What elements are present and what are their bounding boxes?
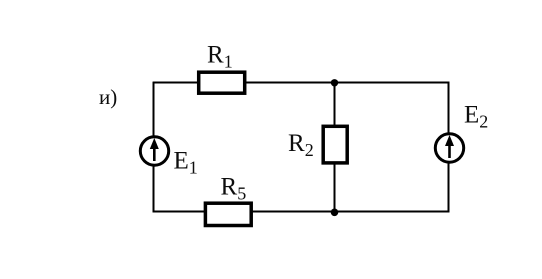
wire bottom middle segment [250, 211, 335, 213]
wire bottom-left segment [153, 211, 206, 213]
wire right vertical upper [448, 82, 450, 133]
current source E2 [435, 134, 463, 162]
wire top middle segment [245, 82, 335, 84]
wire bottom-right segment [335, 211, 450, 213]
wire left vertical lower [153, 166, 155, 212]
wire top-right segment [335, 82, 450, 84]
resistor R1 [199, 72, 245, 93]
svg-text:E2: E2 [464, 102, 488, 132]
svg-text:R5: R5 [221, 173, 247, 203]
wire top-left segment [153, 82, 198, 84]
wire left vertical upper [153, 82, 155, 136]
node bottom junction [331, 209, 339, 217]
resistor R2 [323, 126, 347, 163]
svg-text:E1: E1 [174, 148, 198, 178]
node top junction [331, 79, 338, 86]
svg-text:R1: R1 [207, 42, 233, 72]
wire middle vertical upper [334, 83, 336, 128]
wire middle vertical lower [334, 163, 336, 212]
current source E1 [140, 137, 168, 165]
svg-text:и): и) [99, 85, 117, 109]
resistor R5 [205, 203, 251, 225]
wire right vertical lower [448, 163, 450, 212]
svg-text:R2: R2 [288, 130, 314, 160]
